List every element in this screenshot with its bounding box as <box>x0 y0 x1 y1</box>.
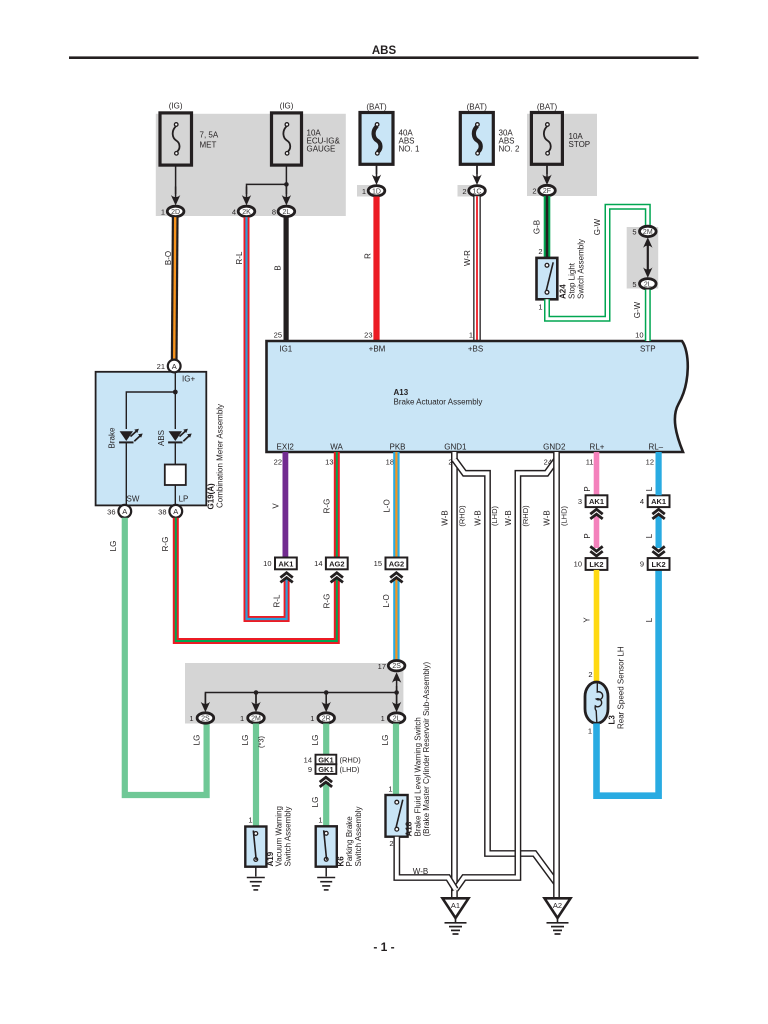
wire G-B 2F to A24 pin2 <box>544 196 551 258</box>
svg-text:2L: 2L <box>393 716 401 723</box>
svg-text:8: 8 <box>272 208 276 217</box>
fuse F4 30A ABS NO.2 <box>460 113 493 165</box>
speed sensor L3 <box>585 682 608 723</box>
bus drop arrow to 2L <box>396 693 398 704</box>
svg-text:AK1: AK1 <box>589 497 604 506</box>
connector 2M/2L pair background <box>627 227 659 289</box>
svg-text:SW: SW <box>127 495 140 504</box>
svg-text:Switch Assembly: Switch Assembly <box>284 806 293 866</box>
chevrons below AK1 <box>280 573 292 583</box>
svg-text:GND1: GND1 <box>444 442 467 451</box>
svg-text:GND2: GND2 <box>543 442 566 451</box>
bus drop arrow to 2M <box>255 693 257 704</box>
svg-text:(LHD): (LHD) <box>340 765 361 774</box>
wire LG pin36 down and to 2S <box>125 518 207 795</box>
svg-text:L: L <box>645 533 654 538</box>
bus junction dot 2M <box>254 690 259 695</box>
chevrons below 4 AK1 <box>652 509 664 519</box>
connector 4 AK1 <box>648 495 670 507</box>
wire LG 2R to GK1 <box>323 724 329 755</box>
ground bus line <box>205 686 396 705</box>
svg-text:9: 9 <box>640 560 644 569</box>
wire R 1D to pin 23 +BM <box>373 197 379 342</box>
svg-text:P: P <box>583 486 592 491</box>
svg-text:AK1: AK1 <box>651 497 666 506</box>
svg-text:Brake: Brake <box>108 427 117 448</box>
svg-text:PKB: PKB <box>389 442 405 451</box>
svg-text:GAUGE: GAUGE <box>307 145 336 154</box>
svg-text:Switch Assembly: Switch Assembly <box>354 806 363 866</box>
wire R-G pin38 down right and up to AG2 <box>176 518 337 641</box>
svg-text:+BS: +BS <box>468 345 483 354</box>
chevrons below 3 AK1 <box>590 509 602 519</box>
svg-text:2: 2 <box>462 187 466 196</box>
svg-text:1: 1 <box>469 331 473 340</box>
ground bus background <box>185 663 403 724</box>
svg-text:G-W: G-W <box>633 301 642 318</box>
meter internal wire from pin21 to junction <box>174 372 176 392</box>
connector 2S(1) <box>197 713 214 723</box>
svg-text:1: 1 <box>381 714 385 723</box>
wire LG 2M to A19 <box>253 724 259 827</box>
svg-text:1: 1 <box>248 816 252 825</box>
svg-text:A: A <box>173 507 178 516</box>
connector 2F <box>539 185 556 195</box>
svg-text:Brake Actuator Assembly: Brake Actuator Assembly <box>394 398 483 407</box>
svg-text:IG+: IG+ <box>182 375 195 384</box>
svg-text:R-L: R-L <box>235 251 244 264</box>
wire R-L 2K down long run to AK1 <box>247 217 287 619</box>
svg-text:LG: LG <box>109 541 118 552</box>
svg-text:36: 36 <box>107 508 115 517</box>
svg-text:W-R: W-R <box>463 250 472 266</box>
svg-text:P: P <box>583 533 592 538</box>
meter internal wire branch to brake led <box>126 392 175 429</box>
chevrons below 15 AG2 <box>390 573 402 583</box>
svg-text:(RHD): (RHD) <box>521 505 530 527</box>
svg-text:G-B: G-B <box>533 220 542 234</box>
svg-text:2L: 2L <box>283 209 291 216</box>
svg-text:10: 10 <box>263 559 271 568</box>
svg-text:WA: WA <box>330 442 343 451</box>
connector 2K <box>238 206 255 216</box>
wire L-O pin18 PKB to AG2 <box>393 452 399 558</box>
svg-text:(Brake Master Cylinder Reservo: (Brake Master Cylinder Reservoir Sub-Ass… <box>422 661 431 836</box>
svg-text:Y: Y <box>583 617 592 623</box>
brake warning LED <box>120 431 133 441</box>
double arrow between 2M and 2L <box>647 243 649 272</box>
connector 1D background <box>357 185 382 197</box>
wire R-G pin13 WA to AG2 <box>334 452 340 558</box>
svg-text:(RHD): (RHD) <box>458 505 467 527</box>
svg-text:12: 12 <box>646 458 654 467</box>
connector 15 AG2 <box>386 558 408 570</box>
svg-text:Combination Meter Assembly: Combination Meter Assembly <box>216 404 225 508</box>
svg-text:17: 17 <box>378 662 386 671</box>
chevrons below GK1 <box>320 777 332 787</box>
svg-text:38: 38 <box>158 508 166 517</box>
svg-text:R-G: R-G <box>161 537 170 552</box>
svg-text:B: B <box>274 265 283 270</box>
svg-text:4: 4 <box>640 497 644 506</box>
svg-text:2: 2 <box>532 187 536 196</box>
svg-text:2R: 2R <box>322 716 331 723</box>
wire G-W 2L to pin10 STP <box>645 290 651 342</box>
svg-text:1: 1 <box>161 208 165 217</box>
svg-text:2D: 2D <box>171 209 180 216</box>
svg-text:L3: L3 <box>608 715 617 725</box>
brake led wire to SW <box>125 442 127 506</box>
resistor box <box>165 465 186 486</box>
chevrons above 10 LK2 <box>590 546 602 556</box>
svg-text:L: L <box>645 617 654 622</box>
bus junction dot 2L <box>394 690 399 695</box>
svg-text:2K: 2K <box>242 209 251 216</box>
A13 brake actuator assembly box <box>267 341 688 452</box>
svg-text:R-L: R-L <box>273 594 282 607</box>
svg-text:21: 21 <box>157 362 165 371</box>
svg-text:LG: LG <box>241 735 250 746</box>
svg-text:1: 1 <box>318 816 322 825</box>
wire P AK1 to LK2 <box>594 516 600 548</box>
wire LG GK1 to K6 <box>323 782 329 826</box>
svg-text:RL+: RL+ <box>590 442 605 451</box>
svg-text:Vacuum Warning: Vacuum Warning <box>275 806 284 866</box>
wire B-O 2D to meter pin 21 <box>174 217 175 360</box>
svg-text:1: 1 <box>388 785 392 794</box>
svg-text:G-W: G-W <box>593 218 602 235</box>
svg-text:W-B: W-B <box>504 510 513 525</box>
svg-text:1: 1 <box>240 714 244 723</box>
junction block background (IG fuses) <box>156 114 346 216</box>
wire fuse F1 to 2D <box>175 165 177 194</box>
svg-text:(BAT): (BAT) <box>537 103 558 112</box>
svg-text:STOP: STOP <box>569 140 591 149</box>
svg-text:7, 5A: 7, 5A <box>200 131 219 140</box>
svg-text:LP: LP <box>179 495 189 504</box>
connector GK1 (RHD) <box>316 755 337 765</box>
svg-text:2L: 2L <box>644 281 652 288</box>
connector 14 AG2 <box>326 558 348 570</box>
svg-text:(LHD): (LHD) <box>490 505 499 526</box>
connector 2L(5) <box>640 279 657 289</box>
svg-text:2S: 2S <box>392 663 401 670</box>
ABS warning LED <box>169 431 182 441</box>
ground at A19 <box>255 867 257 877</box>
svg-text:18: 18 <box>386 458 394 467</box>
connector 2D <box>167 206 184 216</box>
wire B 2L to pin 25 IG1 <box>284 217 289 341</box>
svg-text:LG: LG <box>311 735 320 746</box>
svg-text:AG2: AG2 <box>329 559 344 568</box>
svg-text:+BM: +BM <box>369 345 386 354</box>
wire branch to 2L <box>285 184 287 194</box>
wire L LK2 to AK1 <box>655 516 661 548</box>
abs led wire to resistor <box>174 442 176 466</box>
svg-text:V: V <box>272 503 281 509</box>
svg-text:ABS: ABS <box>157 430 166 446</box>
fuse F5 10A STOP <box>531 113 562 165</box>
wire fuse F4 to 1C <box>476 164 478 174</box>
connector 3 AK1 <box>586 495 608 507</box>
svg-text:AG2: AG2 <box>389 559 404 568</box>
svg-text:LK2: LK2 <box>652 560 666 569</box>
meter internal wire abs branch <box>174 392 176 429</box>
combination meter box G19(A) <box>96 372 207 506</box>
fuse F3 40A ABS NO.1 <box>360 113 393 165</box>
wire V pin22 EXI2 to AK1 <box>282 452 288 558</box>
connector 2L(1) <box>388 713 405 723</box>
svg-text:2F: 2F <box>543 188 551 195</box>
svg-text:5: 5 <box>632 228 636 237</box>
wire L AK1 to pin12 RL- <box>655 452 661 495</box>
svg-text:3: 3 <box>578 497 582 506</box>
svg-text:1: 1 <box>538 303 542 312</box>
svg-text:IG1: IG1 <box>279 345 292 354</box>
svg-text:Switch Assembly: Switch Assembly <box>577 239 586 299</box>
svg-text:- 1 -: - 1 - <box>373 940 394 954</box>
switch A18 brake fluid level <box>386 795 408 837</box>
wire W-R 1C to pin 1 +BS <box>473 196 481 341</box>
svg-text:9: 9 <box>308 765 312 774</box>
chevrons above 9 LK2 <box>652 546 664 556</box>
svg-text:22: 22 <box>274 458 282 467</box>
svg-text:G19(A): G19(A) <box>207 483 216 510</box>
connector 2S(17) <box>388 661 405 671</box>
svg-text:14: 14 <box>314 559 322 568</box>
svg-text:LK2: LK2 <box>589 560 603 569</box>
svg-text:2: 2 <box>588 670 592 679</box>
switch A24 stop light <box>537 258 558 299</box>
svg-text:RL–: RL– <box>648 442 663 451</box>
svg-text:4: 4 <box>232 208 236 217</box>
svg-text:A: A <box>172 362 177 371</box>
svg-text:ABS: ABS <box>372 45 397 57</box>
svg-text:10: 10 <box>574 560 582 569</box>
svg-text:2M: 2M <box>251 716 261 723</box>
svg-text:LG: LG <box>381 735 390 746</box>
svg-text:GK1: GK1 <box>318 755 333 764</box>
svg-text:(IG): (IG) <box>169 102 183 111</box>
svg-text:5: 5 <box>632 280 636 289</box>
wire W-B GND1 RHD to A1 <box>451 452 458 897</box>
connector 2M(1) <box>248 713 265 723</box>
bus drop arrow to 2S <box>201 693 210 712</box>
svg-text:B-O: B-O <box>164 251 173 265</box>
ground at K6 <box>325 867 327 877</box>
bus drop arrow to 2R <box>325 693 327 704</box>
svg-text:MET: MET <box>200 141 217 150</box>
svg-text:1C: 1C <box>473 188 482 195</box>
arrow up into 2S(17) <box>392 672 401 691</box>
connector 10 AK1 <box>275 558 297 570</box>
svg-text:1: 1 <box>310 714 314 723</box>
chevrons below 14 AG2 <box>331 573 343 583</box>
connector 1C background <box>458 185 483 197</box>
svg-text:15: 15 <box>374 559 382 568</box>
svg-text:NO. 1: NO. 1 <box>399 145 420 154</box>
svg-text:23: 23 <box>364 331 372 340</box>
svg-text:LG: LG <box>193 735 202 746</box>
wire Y LK2 to L3 pin2 <box>594 570 600 682</box>
svg-text:L-O: L-O <box>382 594 391 607</box>
connector 2M(5) <box>640 226 657 236</box>
svg-text:(RHD): (RHD) <box>340 755 362 764</box>
wire branch to 2K <box>247 184 287 194</box>
svg-text:A24: A24 <box>559 284 568 299</box>
svg-text:(BAT): (BAT) <box>467 103 488 112</box>
connector 9 LK2 <box>648 558 670 570</box>
svg-text:1: 1 <box>189 714 193 723</box>
connector 1C <box>469 186 486 196</box>
wire L-O AG2 down to 2S(17) <box>393 578 399 661</box>
switch A19 vacuum warning <box>245 827 266 867</box>
svg-text:Stop Light: Stop Light <box>568 262 577 299</box>
svg-text:1D: 1D <box>372 188 381 195</box>
svg-text:EXI2: EXI2 <box>277 442 295 451</box>
svg-text:(*3): (*3) <box>257 735 266 748</box>
svg-text:14: 14 <box>304 755 312 764</box>
wire fuse F2 to junction <box>285 165 287 184</box>
wire W-B GND2 RHD to A1 <box>456 460 557 890</box>
fuse F1 7.5A MET <box>160 113 192 165</box>
wire L L3 pin1 loop to LK2(9) <box>597 570 659 796</box>
wire G-W A24 pin1 loop up to 2M <box>547 207 648 319</box>
svg-text:2S: 2S <box>201 716 210 723</box>
connector 10 LK2 <box>586 558 608 570</box>
svg-text:W-B: W-B <box>543 510 552 525</box>
wire fuse F5 to 2F <box>546 164 548 174</box>
ground A2 <box>545 898 571 918</box>
svg-text:2M: 2M <box>643 229 653 236</box>
svg-text:(IG): (IG) <box>280 102 294 111</box>
wire P pin11 RL+ to AK1 <box>594 452 600 495</box>
connector 2R(1) <box>318 713 335 723</box>
svg-text:GK1: GK1 <box>318 765 333 774</box>
svg-text:W-B: W-B <box>474 510 483 525</box>
svg-text:L-O: L-O <box>383 499 392 512</box>
svg-text:LG: LG <box>311 797 320 808</box>
svg-text:Rear Speed Sensor LH: Rear Speed Sensor LH <box>617 646 626 729</box>
svg-text:2: 2 <box>389 839 393 848</box>
svg-text:L: L <box>645 486 654 491</box>
svg-text:NO. 2: NO. 2 <box>499 145 520 154</box>
pin 36 circle A <box>118 505 131 518</box>
svg-text:(LHD): (LHD) <box>560 505 569 526</box>
svg-text:W-B: W-B <box>413 867 428 876</box>
svg-text:(BAT): (BAT) <box>366 103 387 112</box>
resistor wire to LP <box>174 485 176 506</box>
wire W-B GND2 LHD to A2 <box>553 452 560 897</box>
svg-text:25: 25 <box>274 331 282 340</box>
svg-text:1: 1 <box>588 727 592 736</box>
junction dot <box>284 182 289 187</box>
svg-text:A18: A18 <box>405 821 414 836</box>
svg-text:11: 11 <box>586 458 594 467</box>
pin 21 circle A <box>168 360 181 373</box>
svg-text:13: 13 <box>325 458 333 467</box>
svg-text:A2: A2 <box>553 901 562 910</box>
switch K6 parking brake <box>316 826 337 866</box>
svg-text:A1: A1 <box>451 901 460 910</box>
junction block background (STOP fuse) <box>527 114 597 196</box>
wire W-B GND1 LHD to A2 <box>454 460 557 885</box>
bus junction dot 2R <box>324 690 329 695</box>
header rule <box>69 56 699 59</box>
svg-text:W-B: W-B <box>440 510 449 525</box>
wire fuse F3 to 1D <box>376 164 378 174</box>
svg-text:A: A <box>122 507 127 516</box>
pin 38 circle A <box>169 505 182 518</box>
connector 2L <box>278 206 295 216</box>
svg-text:A13: A13 <box>394 388 409 397</box>
svg-text:STP: STP <box>640 345 656 354</box>
connector GK1 (LHD) <box>316 764 337 774</box>
ground A1 <box>443 898 469 918</box>
svg-text:AK1: AK1 <box>278 559 293 568</box>
wire W-B A18 pin2 to A1 <box>397 837 456 890</box>
svg-text:1: 1 <box>362 187 366 196</box>
fuse F2 10A ECU-IG&amp; GAUGE <box>272 113 302 165</box>
svg-text:2: 2 <box>538 247 542 256</box>
svg-text:10: 10 <box>635 331 643 340</box>
meter junction dot <box>173 390 178 395</box>
svg-text:R: R <box>364 253 373 259</box>
wire LG 2L to A18 <box>393 724 399 796</box>
svg-text:Parking Brake: Parking Brake <box>345 816 354 867</box>
svg-text:R-G: R-G <box>323 499 332 514</box>
connector 1D <box>368 186 385 196</box>
svg-text:R-G: R-G <box>323 594 332 609</box>
